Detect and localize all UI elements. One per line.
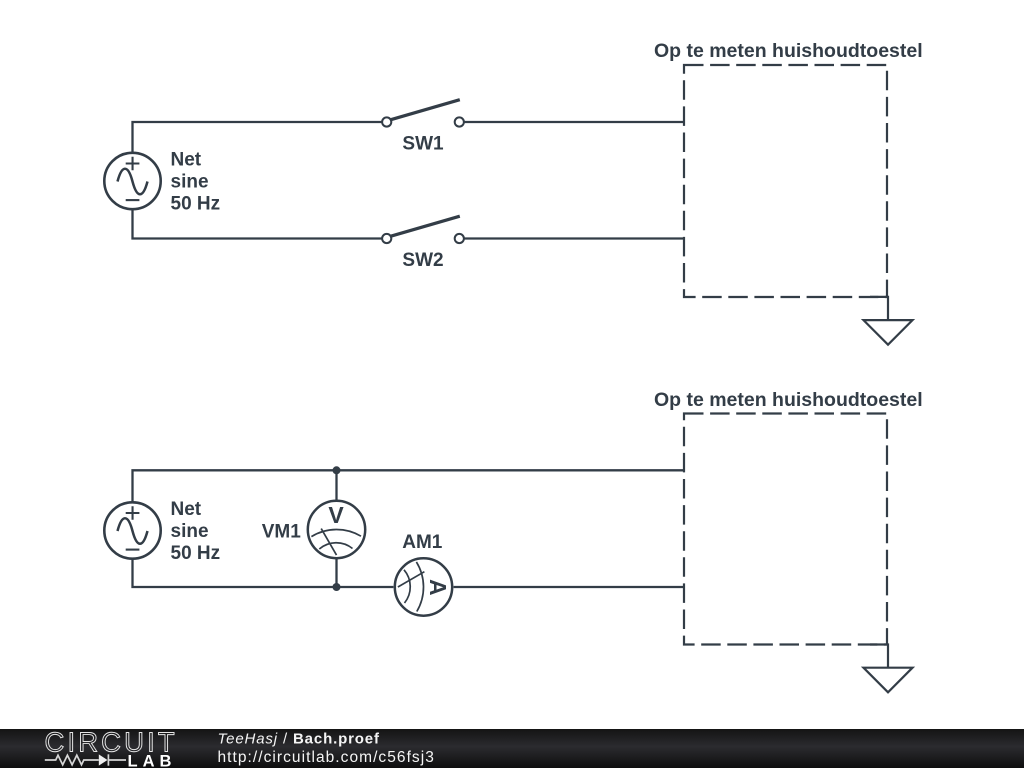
svg-text:50 Hz: 50 Hz <box>171 193 221 214</box>
svg-text:Op te meten huishoudtoestel: Op te meten huishoudtoestel <box>654 40 923 62</box>
svg-text:TeeHasj / Bach.proef: TeeHasj / Bach.proef <box>218 731 381 748</box>
svg-text:SW2: SW2 <box>402 250 443 271</box>
svg-text:Net: Net <box>171 150 202 171</box>
svg-text:V: V <box>328 502 344 528</box>
svg-text:sine: sine <box>171 521 209 542</box>
svg-text:sine: sine <box>171 172 209 193</box>
svg-text:VM1: VM1 <box>262 521 302 542</box>
svg-text:SW1: SW1 <box>402 134 444 155</box>
svg-text:A: A <box>425 579 451 596</box>
svg-text:Op te meten huishoudtoestel: Op te meten huishoudtoestel <box>654 389 923 411</box>
svg-text:http://circuitlab.com/c56fsj3: http://circuitlab.com/c56fsj3 <box>218 749 435 766</box>
svg-text:Net: Net <box>171 499 202 520</box>
svg-text:AM1: AM1 <box>402 532 443 553</box>
svg-text:50 Hz: 50 Hz <box>171 543 221 564</box>
svg-text:LAB: LAB <box>128 752 177 768</box>
